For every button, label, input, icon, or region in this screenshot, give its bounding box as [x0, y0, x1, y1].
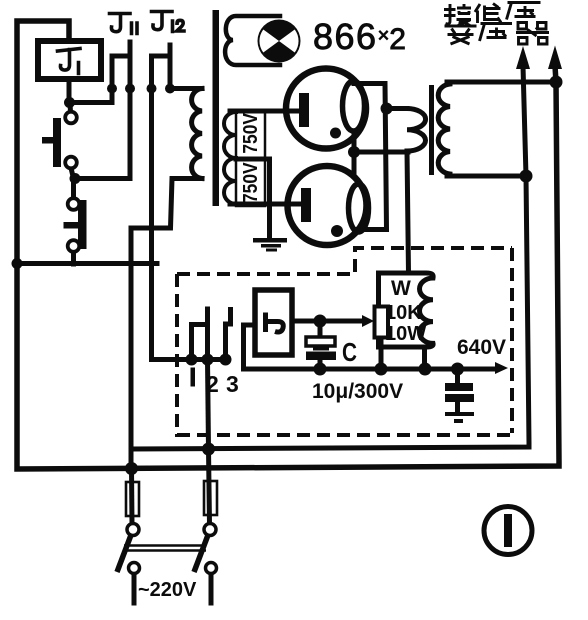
- svg-text:~220V: ~220V: [138, 579, 197, 601]
- svg-text:10μ/300V: 10μ/300V: [312, 380, 403, 403]
- svg-text:866×2: 866×2: [313, 16, 407, 57]
- svg-text:W: W: [391, 277, 411, 300]
- svg-text:640V: 640V: [457, 336, 506, 359]
- svg-text:750V∣750V: 750V∣750V: [240, 112, 262, 203]
- svg-text:C: C: [342, 337, 357, 367]
- svg-text:10K: 10K: [385, 302, 422, 324]
- svg-text:3: 3: [226, 371, 239, 397]
- svg-text:10W: 10W: [385, 323, 426, 345]
- svg-text:2: 2: [206, 371, 219, 397]
